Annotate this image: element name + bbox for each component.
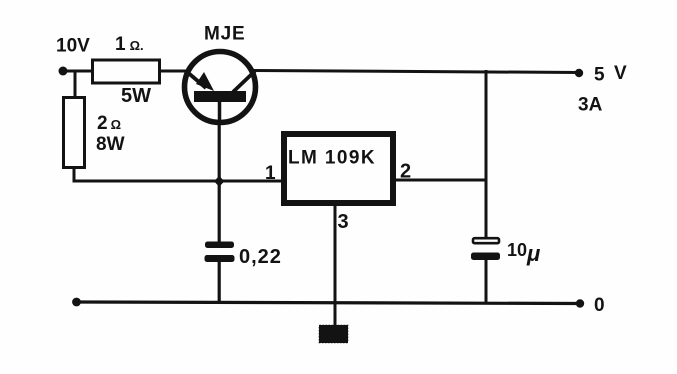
junction node A dot (214, 176, 225, 187)
node IN terminal dot (59, 67, 68, 76)
regulator U1 LM109K (284, 134, 393, 203)
svg-text:10V: 10V (56, 36, 90, 57)
svg-text:10: 10 (507, 240, 527, 260)
svg-text:3: 3 (338, 211, 349, 233)
wire C1 to bottom rail (218, 260, 221, 303)
wire bottom rail (75, 302, 580, 304)
svg-text:0,22: 0,22 (239, 246, 282, 268)
wire Q1 base down to C1 (218, 120, 221, 243)
svg-text:μ: μ (526, 241, 540, 266)
capacitor C2 10u (471, 238, 500, 260)
wire U1 pin3 to ground (334, 206, 337, 327)
svg-text:MJE: MJE (204, 24, 245, 45)
svg-text:0: 0 (594, 295, 605, 316)
wire U1 pin2 to output rail (396, 179, 487, 182)
capacitor C1 0.22 (205, 242, 235, 263)
node 0V right terminal dot (576, 299, 584, 307)
svg-text:LM 109K: LM 109K (288, 148, 376, 169)
svg-text:V: V (614, 63, 627, 84)
transistor Q1 MJE (185, 52, 256, 123)
wire top rail Q1 collector to +5V (254, 71, 580, 73)
svg-text:1: 1 (265, 163, 276, 184)
wire input to R1 (60, 70, 92, 73)
resistor R1 1ohm (93, 60, 160, 83)
svg-text:5W: 5W (121, 85, 151, 107)
wire R2 bottom to node A (74, 167, 281, 181)
wire output rail down to C2 (485, 70, 488, 238)
ground (319, 325, 348, 343)
svg-text:1Ω.: 1Ω. (115, 34, 144, 55)
node 0V left terminal dot (72, 298, 81, 307)
wire R1 to Q1 emitter (159, 70, 189, 73)
resistor R2 2ohm (64, 98, 85, 168)
wire input down to R2 (74, 70, 77, 97)
svg-text:3A: 3A (578, 95, 603, 116)
svg-text:8W: 8W (96, 134, 125, 155)
wire C2 to bottom rail (485, 258, 488, 304)
svg-text:5: 5 (594, 65, 605, 86)
node +5V terminal dot (575, 69, 583, 77)
